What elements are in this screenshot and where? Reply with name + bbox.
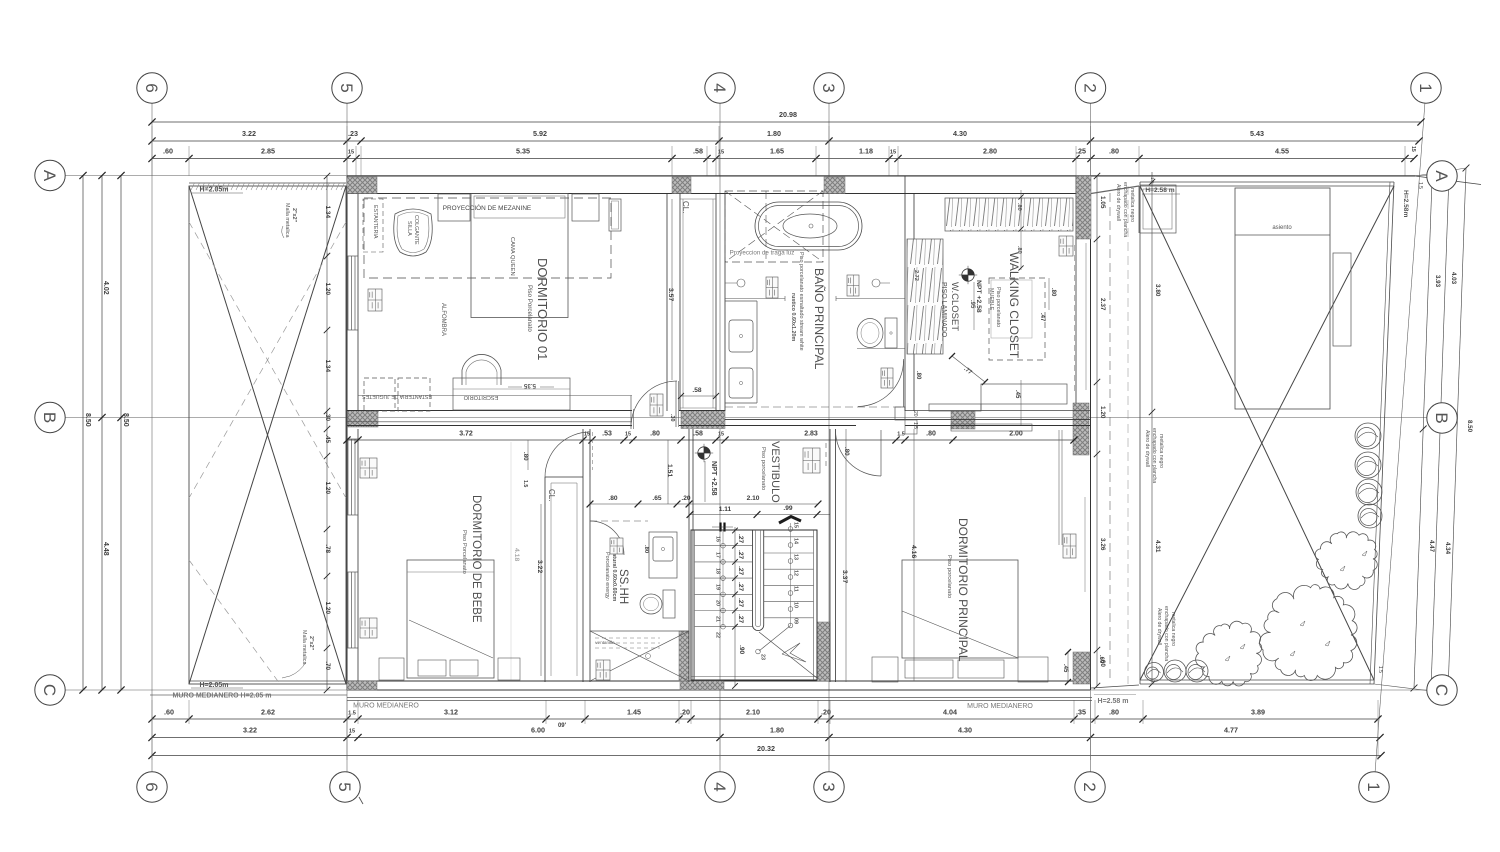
svg-text:.70: .70 (324, 661, 331, 670)
garden boundary (1140, 182, 1394, 684)
svg-text:metalica negro: metalica negro (1129, 188, 1135, 222)
svg-text:Porcelanato energy: Porcelanato energy (604, 552, 610, 599)
svg-text:4.55: 4.55 (1275, 147, 1289, 156)
svg-text:.27: .27 (737, 534, 744, 543)
shrub row right (1355, 423, 1382, 528)
alero eave edge (1091, 177, 1155, 233)
svg-text:MURO MEDIANERO: MURO MEDIANERO (967, 703, 1033, 710)
wall column hatch B5 (348, 411, 378, 428)
svg-text:asiento: asiento (1272, 225, 1292, 231)
svg-text:NPT +2.58: NPT +2.58 (710, 461, 719, 496)
building right wall axis 2 (1076, 176, 1091, 690)
svg-text:metalica negro: metalica negro (1170, 612, 1176, 646)
svg-text:DORMITORIO 01: DORMITORIO 01 (535, 258, 550, 360)
svg-text:.27: .27 (737, 550, 744, 559)
svg-text:.45: .45 (1014, 390, 1020, 399)
top dimension row 2 (148, 129, 1422, 145)
bottom dimension row 2 (148, 726, 1383, 742)
svg-text:1.20: 1.20 (324, 602, 331, 615)
sshh dashed top line (590, 520, 648, 522)
svg-text:4.18: 4.18 (513, 548, 520, 561)
garden bottom connector (1091, 685, 1139, 688)
svg-text:15: 15 (793, 522, 799, 528)
svg-text:.30: .30 (324, 412, 331, 421)
svg-text:6.00: 6.00 (531, 726, 545, 735)
svg-text:1.34: 1.34 (324, 206, 331, 219)
axis circles right (1427, 161, 1457, 705)
svg-text:A: A (1432, 170, 1451, 182)
svg-text:.35: .35 (1076, 708, 1086, 717)
towel ring right (872, 279, 890, 287)
wall column hatch B walkingcloset (951, 411, 975, 429)
svg-text:09': 09' (558, 723, 567, 729)
svg-text:20: 20 (912, 411, 918, 417)
hanging chair silla colgante (394, 209, 432, 256)
svg-text:B: B (40, 412, 59, 423)
svg-text:5.43: 5.43 (1250, 129, 1264, 138)
tree medium (1196, 621, 1262, 686)
svg-text:4.30: 4.30 (953, 129, 967, 138)
tree large (1259, 585, 1357, 681)
svg-text:ALFOMBRA: ALFOMBRA (440, 303, 446, 336)
svg-text:.27: .27 (737, 566, 744, 575)
door tag dorm01 (650, 394, 663, 416)
bed bebe (379, 560, 520, 680)
svg-text:C: C (40, 684, 59, 696)
svg-text:4.34: 4.34 (1444, 542, 1451, 555)
alero note mid (1144, 428, 1164, 483)
window tag bebe upper (360, 458, 377, 478)
garden cross bracing (1140, 186, 1394, 680)
svg-text:1.51: 1.51 (666, 464, 673, 477)
svg-text:2"x2": 2"x2" (308, 636, 314, 651)
svg-text:1: 1 (1416, 83, 1435, 92)
room label SSHH (604, 550, 629, 604)
garden label H=2.58m (1142, 187, 1180, 194)
building top wall (347, 176, 1481, 194)
toy shelf estanteria de juguetes (362, 378, 432, 411)
svg-text:Malla metalica: Malla metalica (284, 203, 290, 237)
building bottom wall (347, 681, 1090, 690)
svg-text:3.26: 3.26 (1099, 538, 1106, 551)
svg-text:2.10: 2.10 (746, 708, 760, 717)
svg-text:.80: .80 (1050, 288, 1056, 297)
svg-text:4.30: 4.30 (958, 726, 972, 735)
door arc closet bebe (545, 432, 593, 477)
malla metalica note bottom (282, 630, 314, 678)
room label DORMITORIO PRINCIPAL (946, 518, 970, 662)
top right roof ticks (1374, 168, 1466, 693)
alero note top (1115, 182, 1135, 237)
walking closet top rail hatch (945, 198, 1073, 231)
svg-text:14: 14 (793, 538, 799, 544)
svg-text:.58: .58 (692, 387, 701, 394)
door arc dorm principal (836, 430, 882, 476)
right slanted lot dimension lines (1411, 165, 1473, 697)
svg-text:WALKING CLOSET: WALKING CLOSET (1007, 252, 1021, 359)
sshh toilet (640, 590, 675, 618)
wall column hatch C2 (1073, 652, 1090, 684)
svg-text:5: 5 (337, 83, 356, 92)
window tag dorm01 (368, 289, 382, 311)
svg-text:.65: .65 (652, 495, 661, 502)
svg-text:2.85: 2.85 (261, 147, 275, 156)
svg-text:.80: .80 (643, 545, 649, 553)
walking closet diagonal dim .77 (949, 353, 988, 385)
sshh tag (610, 538, 623, 554)
svg-text:.27: .27 (737, 614, 744, 623)
window W left wall lower (347, 572, 358, 648)
estanteria shelf label (363, 199, 383, 252)
svg-text:4.47: 4.47 (1428, 540, 1435, 553)
svg-text:1.80: 1.80 (767, 129, 781, 138)
wall axis3 vestibule / dorm principal (830, 429, 836, 682)
svg-text:COLGANTE: COLGANTE (413, 215, 419, 245)
svg-text:natural 0.60x0.60cm: natural 0.60x0.60cm (611, 550, 617, 601)
sshh sink (643, 532, 677, 578)
svg-text:H=2.58 m: H=2.58 m (1098, 698, 1129, 705)
svg-text:CAMA QUEEN: CAMA QUEEN (509, 237, 515, 276)
svg-text:.47: .47 (1039, 313, 1045, 322)
svg-text:4: 4 (710, 83, 729, 92)
svg-text:2: 2 (1080, 782, 1099, 791)
svg-text:3.72: 3.72 (459, 431, 473, 438)
party wall muro medianero (150, 693, 1136, 711)
room label BANO PRINCIPAL (790, 252, 826, 370)
svg-text:PISO LAMINADO: PISO LAMINADO (940, 282, 947, 338)
svg-text:21: 21 (715, 616, 721, 622)
stair start marker (712, 523, 733, 532)
bed principal (902, 560, 1018, 658)
svg-text:.20: .20 (680, 708, 690, 717)
svg-text:.80: .80 (1016, 203, 1022, 211)
svg-text:20: 20 (715, 600, 721, 606)
svg-text:Piso porcelanato: Piso porcelanato (995, 287, 1001, 327)
svg-text:3: 3 (819, 782, 838, 791)
svg-text:13: 13 (793, 554, 799, 560)
wall column hatch B4 (681, 411, 725, 429)
svg-text:Proyeccion de traga luz: Proyeccion de traga luz (730, 250, 795, 257)
top dimension row 3 (148, 146, 1417, 162)
svg-text:rustico 0.60x1.20m: rustico 0.60x1.20m (790, 293, 796, 341)
alero dashed lines (1110, 186, 1128, 684)
axis circles top (137, 73, 1441, 103)
svg-text:SILLA: SILLA (406, 221, 412, 236)
svg-text:2.72: 2.72 (913, 270, 919, 281)
svg-text:15: 15 (349, 729, 355, 735)
dim .30 label (669, 414, 675, 422)
svg-text:MURO MEDIANERO: MURO MEDIANERO (353, 703, 419, 710)
stair treads right flight (764, 522, 814, 628)
svg-text:Malla metalica: Malla metalica (301, 630, 307, 664)
window W left wall middle (347, 439, 358, 515)
svg-text:2.00: 2.00 (1009, 431, 1023, 438)
svg-text:15: 15 (890, 150, 896, 156)
svg-text:3.22: 3.22 (536, 560, 543, 573)
svg-text:15: 15 (1410, 146, 1416, 152)
wall column hatch C4 stairs (680, 681, 724, 690)
svg-text:.58: .58 (693, 147, 703, 156)
tree arrows marks (1225, 551, 1367, 661)
walking closet low cabinet (929, 380, 1067, 425)
door arc dorm01 (358, 381, 679, 429)
svg-text:ESTANTERIA: ESTANTERIA (372, 205, 378, 239)
dim 3.22 closet bebe (522, 440, 543, 676)
top extension lines (152, 126, 1405, 176)
label W.CLOSET PISO LAMINADO (940, 282, 960, 338)
svg-text:1.80: 1.80 (770, 726, 784, 735)
svg-text:.20: .20 (821, 708, 831, 717)
svg-text:.90: .90 (738, 645, 745, 654)
left terrace (patio) with cross bracing (189, 183, 346, 684)
svg-text:8.50: 8.50 (84, 413, 91, 427)
svg-text:MURO MEDIANERO H=2.05 m: MURO MEDIANERO H=2.05 m (173, 693, 272, 700)
alero note bottom (1156, 606, 1176, 661)
terrace label H=2.05m top (191, 187, 243, 194)
bath dashed projection line (725, 406, 905, 408)
room label DORMITORIO 01 (526, 258, 550, 360)
svg-text:1.5: 1.5 (1149, 177, 1155, 184)
bathtub (755, 202, 862, 250)
svg-text:15: 15 (348, 150, 354, 156)
dorm principal right wall lines (1059, 430, 1062, 545)
svg-text:1.20: 1.20 (1099, 406, 1106, 419)
svg-text:6: 6 (142, 782, 161, 791)
wall column hatch B2 (1073, 403, 1089, 455)
svg-text:09: 09 (793, 618, 799, 624)
svg-text:15: 15 (625, 432, 631, 438)
wardrobe rail hatch wcloset (907, 239, 943, 354)
svg-text:2.10: 2.10 (747, 495, 760, 502)
wall hatch shower edge (679, 631, 689, 681)
bottom dimension row 3 (148, 744, 1384, 759)
vestibule npt marker (695, 444, 719, 502)
svg-text:1.5: 1.5 (1377, 666, 1383, 673)
svg-text:PROYECCIÓN DE MEZANINE: PROYECCIÓN DE MEZANINE (443, 203, 531, 212)
svg-text:.80: .80 (1109, 147, 1119, 156)
svg-text:4.16: 4.16 (910, 545, 917, 558)
terrace label H=2.05m bottom (191, 682, 243, 689)
svg-text:5.92: 5.92 (533, 129, 547, 138)
svg-text:Piso porcelanato esmaltado str: Piso porcelanato esmaltado stream white (798, 252, 804, 351)
svg-text:C: C (1432, 684, 1451, 696)
stair center rail (753, 530, 764, 631)
walking closet npt marker (959, 266, 982, 330)
svg-text:1.20: 1.20 (324, 283, 331, 296)
wardrobe side dim 2.72 (913, 270, 919, 281)
dim 3.57 closet (667, 199, 674, 380)
svg-text:2.83: 2.83 (804, 431, 818, 438)
svg-text:SS.HH: SS.HH (617, 569, 629, 604)
svg-text:.58: .58 (693, 431, 703, 438)
window tag bebe lower (360, 618, 377, 638)
svg-text:.99: .99 (783, 505, 792, 512)
wall hatch stairs right (817, 622, 830, 681)
svg-text:.80: .80 (650, 431, 660, 438)
svg-text:1.65: 1.65 (770, 147, 784, 156)
svg-text:H=2.58 m: H=2.58 m (1145, 187, 1174, 194)
svg-text:3.80: 3.80 (1154, 284, 1161, 297)
svg-text:2.80: 2.80 (983, 147, 997, 156)
svg-text:ventanilla: ventanilla (595, 640, 615, 645)
svg-text:1.45: 1.45 (627, 708, 641, 717)
svg-text:1.05: 1.05 (1099, 196, 1106, 209)
door arc bath (858, 359, 921, 407)
svg-text:.53: .53 (602, 431, 612, 438)
stair treads left flight (695, 530, 753, 638)
malla metalica note top (282, 203, 297, 238)
garden corner planter (1140, 185, 1176, 233)
bath vanity counter (725, 296, 905, 403)
left wall inner dimension line (324, 173, 331, 693)
svg-text:.30: .30 (669, 414, 675, 422)
svg-text:1.5: 1.5 (522, 480, 528, 487)
svg-text:Piso porcelanato: Piso porcelanato (946, 555, 952, 598)
svg-text:3.22: 3.22 (243, 726, 257, 735)
sshh shower (590, 631, 689, 681)
towel ring left (725, 279, 745, 287)
svg-text:20.98: 20.98 (779, 110, 797, 119)
svg-text:20.32: 20.32 (757, 744, 775, 753)
svg-text:3.57: 3.57 (667, 288, 674, 301)
svg-text:4.03: 4.03 (1450, 272, 1457, 285)
dims .45 .60 bottom right (1062, 649, 1104, 685)
walking closet mueble dashed box (989, 278, 1056, 360)
dim 3.37 vertical (841, 429, 848, 682)
closet bebe label CL (547, 489, 556, 501)
svg-text:3.22: 3.22 (242, 129, 256, 138)
svg-text:Piso porcelanato: Piso porcelanato (760, 447, 766, 490)
label WALKING CLOSET (988, 252, 1021, 359)
mid dimension row below band (343, 431, 1077, 444)
mid wall band (347, 407, 1090, 426)
svg-text:.25: .25 (1076, 147, 1086, 156)
svg-text:.95: .95 (969, 300, 975, 309)
svg-text:23: 23 (760, 654, 766, 660)
window W left wall upper (347, 256, 358, 330)
svg-text:1.11: 1.11 (719, 506, 732, 513)
bottom extension lines (152, 700, 1378, 760)
axis circles left (35, 160, 65, 705)
svg-text:.80: .80 (1016, 246, 1022, 254)
bath wall tag right (847, 275, 859, 296)
wall column hatch A5 (347, 177, 377, 194)
svg-text:CL.: CL. (681, 201, 690, 213)
svg-text:2.37: 2.37 (1099, 298, 1106, 311)
mezzanine projection dashed box (364, 198, 611, 278)
dim row sshh vestibule (587, 495, 822, 507)
closet CL label (678, 201, 719, 399)
svg-text:enchapado con plancha: enchapado con plancha (1122, 182, 1128, 237)
svg-text:.27: .27 (737, 598, 744, 607)
left dimension lines (79, 172, 129, 694)
svg-text:.60: .60 (1099, 658, 1106, 667)
svg-text:6: 6 (142, 83, 161, 92)
stair break line and arrow (756, 626, 817, 679)
svg-text:.80: .80 (843, 447, 850, 456)
mid dim 2015 small (912, 411, 918, 429)
svg-text:8.50: 8.50 (122, 413, 129, 427)
svg-text:1.34: 1.34 (324, 360, 331, 373)
svg-text:2.62: 2.62 (261, 708, 275, 717)
svg-text:CL.: CL. (547, 489, 556, 501)
skylight dashed box proyeccion de traga luz (725, 191, 823, 262)
nightstand left (438, 194, 470, 221)
svg-text:Alero de drywall: Alero de drywall (1144, 430, 1150, 467)
svg-text:2"x2": 2"x2" (291, 208, 297, 223)
svg-text:19: 19 (715, 584, 721, 590)
svg-text:.45: .45 (1062, 664, 1068, 673)
svg-text:3: 3 (819, 83, 838, 92)
walking closet tag (1059, 236, 1073, 256)
svg-text:Piso Porcelanato: Piso Porcelanato (461, 530, 467, 574)
svg-text:.23: .23 (348, 129, 358, 138)
vestibule cabinet tag (803, 448, 820, 473)
wall bath right / wcloset (905, 176, 914, 411)
right strip dimension line (1094, 173, 1106, 689)
bench asiento (1235, 188, 1351, 409)
wall column hatch C5 (347, 681, 377, 690)
building left wall with windows (347, 176, 358, 690)
stair direction arrow (779, 517, 801, 524)
wall column hatch A4 (672, 177, 691, 194)
svg-text:.80: .80 (926, 431, 936, 438)
svg-text:Piso Porcelanato: Piso Porcelanato (526, 285, 533, 332)
bath door tag (881, 368, 893, 388)
svg-text:DORMITORIO PRINCIPAL: DORMITORIO PRINCIPAL (956, 518, 970, 662)
svg-text:DORMITORIO DE BEBE: DORMITORIO DE BEBE (470, 495, 482, 623)
svg-text:1.20: 1.20 (324, 482, 331, 495)
svg-text:.20: .20 (681, 495, 690, 502)
svg-text:3.12: 3.12 (444, 708, 458, 717)
garden inner dim line (1149, 172, 1161, 687)
svg-text:11: 11 (793, 586, 799, 592)
svg-text:.80: .80 (608, 495, 617, 502)
svg-text:.80: .80 (1109, 708, 1119, 717)
svg-text:A: A (40, 170, 59, 182)
shelf right (609, 199, 621, 231)
grid axis lines (65, 103, 1427, 772)
svg-text:18: 18 (715, 568, 721, 574)
svg-text:3.37: 3.37 (841, 570, 848, 583)
wall lines below A2 column (1075, 243, 1087, 395)
svg-text:ESCRITORIO: ESCRITORIO (463, 394, 498, 400)
svg-text:4: 4 (710, 782, 729, 791)
bed bench drawers (872, 657, 1048, 682)
svg-text:1.5: 1.5 (897, 432, 905, 438)
svg-text:16: 16 (715, 536, 721, 542)
desk chair (462, 354, 501, 385)
wall stairwell left / SSHH right (689, 429, 693, 682)
stair riser dim line .27 (732, 527, 745, 689)
svg-text:4.77: 4.77 (1224, 726, 1238, 735)
svg-text:4.02: 4.02 (102, 281, 109, 295)
wall column hatch A3 (824, 177, 845, 194)
svg-text:H=2.58m: H=2.58m (1402, 190, 1409, 217)
svg-text:2: 2 (1081, 83, 1100, 92)
svg-text:4.04: 4.04 (943, 708, 957, 717)
svg-text:22: 22 (715, 632, 721, 638)
svg-text:1: 1 (1364, 782, 1383, 791)
dim 1.51 vertical (666, 440, 673, 504)
svg-text:8.50: 8.50 (1466, 420, 1473, 433)
svg-text:.60: .60 (164, 708, 174, 717)
dim row stairs 1.11 .99 (687, 505, 830, 518)
svg-text:4.31: 4.31 (1154, 540, 1161, 553)
bath wall tag left (766, 277, 778, 298)
axis circles bottom (137, 772, 1389, 804)
svg-text:metalica negro: metalica negro (1158, 434, 1164, 468)
